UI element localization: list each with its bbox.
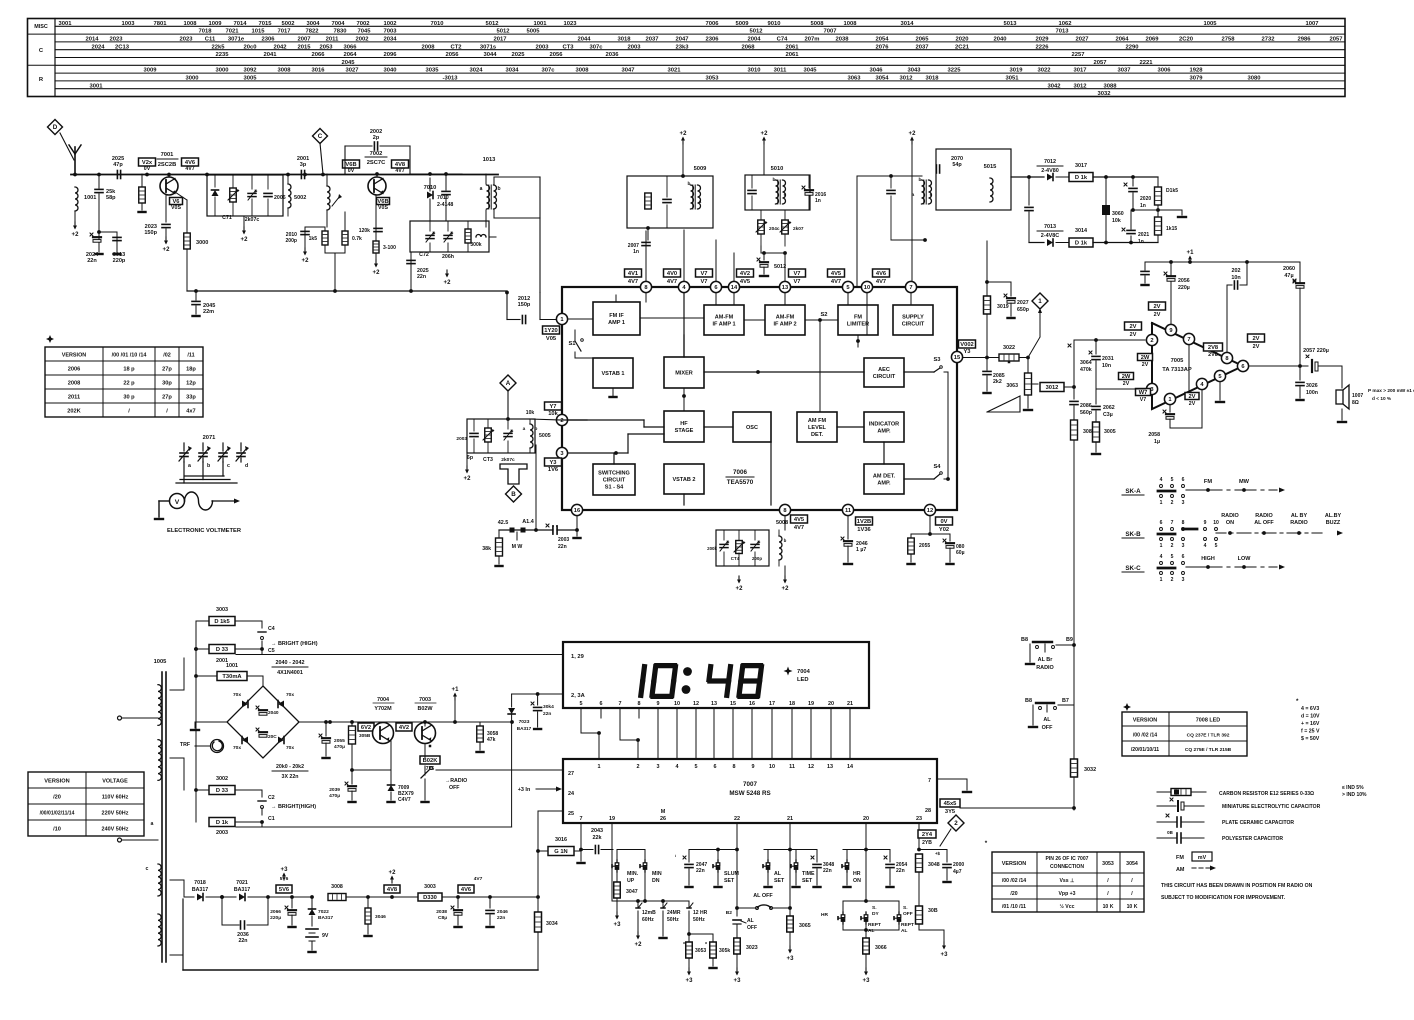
- svg-text:1001: 1001: [533, 21, 547, 27]
- svg-text:3034: 3034: [505, 68, 519, 74]
- svg-text:2-4V80: 2-4V80: [1041, 168, 1059, 174]
- svg-text:2008: 2008: [421, 44, 435, 50]
- svg-text:2003: 2003: [456, 436, 467, 442]
- svg-text:a: a: [912, 193, 915, 198]
- svg-text:45x5: 45x5: [944, 801, 958, 807]
- svg-text:6V2: 6V2: [361, 725, 371, 731]
- svg-text:+ = 16V: + = 16V: [1301, 721, 1320, 727]
- svg-text:18p: 18p: [186, 367, 196, 373]
- svg-text:3023: 3023: [746, 945, 758, 951]
- svg-text:4: 4: [1160, 477, 1163, 483]
- svg-text:2065: 2065: [915, 37, 929, 43]
- svg-text:22n: 22n: [823, 868, 832, 874]
- svg-text:3011: 3011: [774, 68, 787, 74]
- svg-text:7013: 7013: [1044, 224, 1056, 230]
- svg-text:V7: V7: [700, 271, 707, 277]
- svg-text:5: 5: [579, 701, 582, 707]
- svg-text:1003: 1003: [121, 21, 135, 27]
- svg-text:5002: 5002: [281, 21, 295, 27]
- svg-text:POLYESTER CAPACITOR: POLYESTER CAPACITOR: [1222, 836, 1283, 842]
- svg-text:13: 13: [782, 285, 788, 291]
- svg-text:-3013: -3013: [443, 76, 459, 82]
- svg-text:AM DET.: AM DET.: [873, 474, 896, 480]
- svg-text:18: 18: [789, 701, 795, 707]
- svg-text:4x7: 4x7: [186, 409, 195, 415]
- svg-text:2023: 2023: [179, 37, 193, 43]
- svg-text:/20: /20: [1010, 891, 1017, 897]
- svg-text:8Ω: 8Ω: [1352, 400, 1359, 406]
- svg-text:2066: 2066: [270, 909, 281, 915]
- svg-text:3010: 3010: [747, 68, 761, 74]
- svg-text:7018: 7018: [198, 29, 212, 35]
- svg-text:3017: 3017: [1073, 68, 1086, 74]
- svg-text:AL BY: AL BY: [1291, 513, 1308, 519]
- svg-text:5: 5: [1215, 543, 1218, 549]
- svg-text:Y3: Y3: [549, 460, 556, 466]
- svg-text:60µ: 60µ: [956, 550, 965, 556]
- svg-text:+2: +2: [389, 870, 397, 876]
- svg-text:10: 10: [769, 764, 775, 770]
- svg-text:CQ 275E / TLR 215B: CQ 275E / TLR 215B: [1185, 747, 1232, 753]
- svg-text:305k: 305k: [719, 948, 730, 954]
- svg-text:7008 LED: 7008 LED: [1196, 718, 1221, 724]
- svg-text:3047: 3047: [621, 68, 634, 74]
- svg-text:CIRCUIT: CIRCUIT: [902, 322, 925, 328]
- svg-text:1n: 1n: [1138, 239, 1144, 245]
- svg-text:2025: 2025: [511, 52, 525, 58]
- svg-text:D1k5: D1k5: [1166, 188, 1178, 194]
- svg-text:3: 3: [656, 764, 659, 770]
- svg-text:2071: 2071: [203, 435, 217, 441]
- svg-text:9: 9: [751, 764, 754, 770]
- svg-text:22k5: 22k5: [211, 44, 225, 50]
- svg-text:70x: 70x: [233, 692, 241, 698]
- svg-text:206h: 206h: [442, 254, 454, 260]
- svg-text:ELECTRONIC VOLTMETER: ELECTRONIC VOLTMETER: [167, 528, 242, 534]
- svg-text:5012: 5012: [749, 29, 763, 35]
- svg-text:7045: 7045: [357, 29, 371, 35]
- svg-text:22n: 22n: [87, 258, 97, 264]
- svg-text:BA317: BA317: [318, 915, 333, 921]
- svg-text:4V2: 4V2: [740, 271, 750, 277]
- svg-text:d = 10V: d = 10V: [1301, 714, 1320, 720]
- svg-text:5009: 5009: [694, 166, 707, 172]
- svg-text:42.5: 42.5: [498, 520, 509, 526]
- svg-text:4V5: 4V5: [831, 271, 842, 277]
- svg-text:FM: FM: [854, 315, 862, 321]
- svg-text:30B: 30B: [928, 908, 938, 914]
- svg-text:2C21: 2C21: [955, 44, 970, 50]
- svg-text:2235: 2235: [215, 52, 229, 58]
- svg-text:2V: 2V: [1253, 344, 1260, 350]
- svg-text:3053: 3053: [695, 948, 706, 954]
- svg-text:2038: 2038: [436, 909, 447, 915]
- svg-text:AEC: AEC: [878, 367, 890, 373]
- svg-text:3043: 3043: [907, 68, 921, 74]
- svg-text:1: 1: [1160, 500, 1163, 506]
- svg-text:2221: 2221: [1139, 60, 1153, 66]
- svg-text:→ BRIGHT (HIGH): → BRIGHT (HIGH): [271, 641, 318, 647]
- svg-text:2: 2: [1171, 543, 1174, 549]
- svg-text:B7: B7: [1062, 698, 1069, 704]
- svg-text:OSC: OSC: [746, 425, 758, 431]
- svg-text:200k: 200k: [707, 546, 717, 551]
- svg-text:5009: 5009: [735, 21, 749, 27]
- svg-text:120k: 120k: [359, 228, 370, 234]
- svg-text:3009: 3009: [143, 68, 157, 74]
- svg-text:2057: 2057: [1093, 60, 1106, 66]
- svg-text:3017: 3017: [1075, 163, 1087, 169]
- svg-text:1007: 1007: [1305, 21, 1318, 27]
- svg-text:S1 - S4: S1 - S4: [605, 485, 624, 491]
- svg-text:9V: 9V: [322, 933, 329, 939]
- svg-text:AMP 1: AMP 1: [608, 320, 625, 326]
- svg-text:+2: +2: [761, 131, 769, 137]
- svg-text:47µ: 47µ: [1284, 273, 1293, 279]
- svg-text:470µ: 470µ: [329, 793, 340, 799]
- svg-text:2040 - 2042: 2040 - 2042: [275, 660, 304, 666]
- svg-text:2061: 2061: [785, 44, 799, 50]
- svg-text:B8: B8: [1025, 698, 1032, 704]
- svg-text:BA317: BA317: [517, 726, 532, 731]
- svg-text:½ Vcc: ½ Vcc: [1060, 903, 1075, 910]
- svg-text:2040: 2040: [993, 37, 1007, 43]
- svg-text:M W: M W: [512, 544, 523, 550]
- svg-text:+2: +2: [736, 586, 744, 592]
- svg-text:3012: 3012: [1046, 385, 1059, 391]
- svg-text:S.: S.: [872, 905, 877, 911]
- svg-text:+2: +2: [373, 270, 381, 276]
- svg-text:1k5: 1k5: [309, 236, 318, 242]
- svg-text:7830: 7830: [333, 29, 347, 35]
- svg-text:2062: 2062: [1103, 405, 1115, 411]
- svg-text:2V: 2V: [1129, 324, 1136, 330]
- svg-text:3066: 3066: [875, 945, 887, 951]
- svg-text:REPT: REPT: [868, 922, 881, 928]
- svg-text:AL: AL: [868, 928, 874, 934]
- svg-text:2V8: 2V8: [1208, 345, 1219, 351]
- svg-text:10: 10: [674, 701, 680, 707]
- svg-text:2V: 2V: [1153, 304, 1160, 310]
- svg-text:VSTAB 2: VSTAB 2: [672, 477, 695, 483]
- svg-text:3054: 3054: [1126, 861, 1138, 867]
- svg-text:2V8: 2V8: [1208, 352, 1218, 358]
- svg-text:AL OFF: AL OFF: [1254, 520, 1274, 526]
- svg-text:4V5: 4V5: [740, 279, 751, 285]
- svg-text:VERSION: VERSION: [62, 353, 87, 359]
- svg-text:19: 19: [609, 816, 615, 822]
- svg-text:MIN: MIN: [652, 871, 662, 877]
- svg-text:C71: C71: [222, 215, 232, 221]
- svg-text:c: c: [227, 463, 230, 469]
- svg-text:3063: 3063: [847, 76, 861, 82]
- svg-text:3040: 3040: [383, 68, 397, 74]
- svg-text:7007: 7007: [823, 29, 836, 35]
- svg-text:23: 23: [916, 816, 922, 822]
- svg-text:3008: 3008: [331, 884, 343, 890]
- svg-text:2021: 2021: [1138, 232, 1149, 238]
- svg-text:2066: 2066: [311, 52, 325, 58]
- svg-text:2017: 2017: [493, 37, 506, 43]
- svg-text:3079: 3079: [1189, 76, 1203, 82]
- svg-text:C4V7: C4V7: [398, 797, 411, 803]
- svg-text:CONNECTION: CONNECTION: [1050, 864, 1084, 870]
- svg-text:6: 6: [1182, 554, 1185, 560]
- svg-text:2k07: 2k07: [793, 226, 804, 232]
- svg-text:2034: 2034: [383, 37, 397, 43]
- svg-text:9: 9: [1204, 520, 1207, 526]
- svg-text:110V 60Hz: 110V 60Hz: [102, 795, 129, 801]
- svg-text:1 µ7: 1 µ7: [856, 547, 866, 553]
- svg-text:25: 25: [568, 811, 574, 817]
- svg-text:2057 220µ: 2057 220µ: [1303, 348, 1329, 354]
- svg-text:22n: 22n: [417, 274, 426, 280]
- svg-text:11: 11: [845, 508, 852, 514]
- svg-text:4V0: 4V0: [667, 271, 677, 277]
- svg-text:2041: 2041: [263, 52, 277, 58]
- svg-text:2046: 2046: [497, 909, 508, 915]
- svg-text:470k: 470k: [1080, 367, 1092, 373]
- svg-text:a: a: [699, 200, 702, 205]
- svg-text:2054: 2054: [875, 37, 889, 43]
- svg-text:V002: V002: [960, 342, 973, 348]
- svg-text:1008: 1008: [183, 21, 197, 27]
- svg-text:9: 9: [656, 701, 659, 707]
- svg-text:+1: +1: [1187, 250, 1195, 256]
- svg-text:22n: 22n: [497, 915, 505, 921]
- svg-text:2027: 2027: [1017, 300, 1029, 306]
- svg-text:2: 2: [1171, 577, 1174, 583]
- svg-text:2076: 2076: [875, 44, 889, 50]
- svg-text:9010: 9010: [767, 21, 781, 27]
- svg-text:10n: 10n: [1231, 275, 1240, 281]
- svg-text:+2: +2: [635, 942, 643, 948]
- svg-text:A: A: [506, 380, 511, 387]
- svg-text:3005: 3005: [1104, 429, 1116, 435]
- svg-text:17: 17: [769, 701, 775, 707]
- svg-text:2096: 2096: [383, 52, 397, 58]
- svg-text:AL: AL: [1043, 717, 1051, 723]
- svg-text:2053: 2053: [319, 44, 333, 50]
- svg-text:3003: 3003: [216, 607, 228, 613]
- svg-text:SET: SET: [774, 878, 785, 884]
- svg-text:20k0 - 20k2: 20k0 - 20k2: [276, 764, 304, 770]
- svg-text:6: 6: [1241, 364, 1244, 370]
- svg-text:5012: 5012: [485, 21, 499, 27]
- svg-text:5012: 5012: [496, 29, 510, 35]
- svg-text:Y3: Y3: [963, 349, 970, 355]
- svg-text:2023: 2023: [109, 37, 123, 43]
- svg-text:2226: 2226: [1035, 44, 1049, 50]
- svg-text:3054: 3054: [875, 76, 889, 82]
- svg-text:1009: 1009: [208, 21, 222, 27]
- svg-text:6: 6: [599, 701, 602, 707]
- svg-text:3022: 3022: [1003, 345, 1015, 351]
- svg-text:LOW: LOW: [1238, 556, 1252, 562]
- svg-text:b: b: [919, 177, 922, 183]
- svg-text:CT2: CT2: [450, 44, 462, 50]
- svg-text:2014: 2014: [85, 37, 99, 43]
- svg-text:3053: 3053: [1102, 861, 1114, 867]
- svg-text:18 p: 18 p: [123, 367, 135, 373]
- svg-text:7013: 7013: [1055, 29, 1069, 35]
- svg-text:305B: 305B: [359, 733, 371, 739]
- svg-text:1n: 1n: [1140, 203, 1146, 209]
- svg-text:MIN.: MIN.: [627, 871, 639, 877]
- svg-text:2: 2: [954, 820, 958, 827]
- svg-text:6: 6: [1182, 477, 1185, 483]
- svg-text:D 33: D 33: [216, 647, 228, 653]
- svg-text:V7: V7: [700, 279, 707, 285]
- svg-text:307c: 307c: [541, 68, 555, 74]
- svg-text:3063: 3063: [1006, 383, 1018, 389]
- svg-text:2257: 2257: [1071, 52, 1084, 58]
- svg-text:MISC: MISC: [34, 24, 48, 30]
- svg-text:SUBJECT TO MODIFICATION FOR: SUBJECT TO MODIFICATION FOR IMPROVEMENT.: [1161, 895, 1286, 901]
- svg-text:3003: 3003: [424, 884, 436, 890]
- svg-text:2007: 2007: [297, 37, 310, 43]
- svg-text:12: 12: [808, 764, 814, 770]
- svg-text:70x: 70x: [286, 745, 294, 751]
- svg-text:4V7: 4V7: [794, 525, 804, 531]
- svg-text:≤ IND 5%: ≤ IND 5%: [1342, 785, 1364, 791]
- svg-text:V7: V7: [793, 279, 800, 285]
- svg-text:3022: 3022: [1037, 68, 1051, 74]
- svg-text:REPT: REPT: [901, 922, 914, 928]
- svg-text:+3 In: +3 In: [518, 787, 531, 793]
- svg-text:S1: S1: [568, 341, 576, 347]
- svg-text:7002: 7002: [356, 21, 370, 27]
- svg-text:FM: FM: [1204, 479, 1212, 485]
- svg-text:3019: 3019: [1009, 68, 1023, 74]
- svg-text:3060: 3060: [1112, 211, 1124, 217]
- svg-text:2011: 2011: [326, 37, 339, 43]
- svg-text:16: 16: [749, 701, 755, 707]
- svg-text:BA317: BA317: [192, 887, 208, 893]
- svg-text:4X1N4001: 4X1N4001: [277, 670, 303, 676]
- svg-text:2057: 2057: [1329, 37, 1342, 43]
- svg-text:2W: 2W: [1122, 374, 1131, 380]
- svg-text:2C13: 2C13: [115, 44, 130, 50]
- svg-text:1001: 1001: [84, 195, 96, 201]
- svg-text:5002: 5002: [294, 195, 306, 201]
- svg-text:220µ: 220µ: [270, 915, 281, 921]
- svg-text:M: M: [661, 809, 666, 815]
- svg-text:2064: 2064: [1115, 37, 1129, 43]
- svg-text:26: 26: [660, 816, 666, 822]
- svg-text:5005: 5005: [539, 433, 551, 439]
- svg-text:2064: 2064: [343, 52, 357, 58]
- svg-text:2-4V8C: 2-4V8C: [1041, 233, 1060, 239]
- svg-text:3X 22n: 3X 22n: [282, 774, 299, 780]
- svg-text:2W: 2W: [1141, 355, 1150, 361]
- svg-text:2020: 2020: [1140, 196, 1151, 202]
- svg-text:7003: 7003: [383, 29, 397, 35]
- svg-text:10k: 10k: [548, 411, 558, 417]
- svg-text:VOLTAGE: VOLTAGE: [102, 779, 128, 785]
- svg-text:7004: 7004: [377, 697, 389, 703]
- svg-text:3047: 3047: [626, 889, 638, 895]
- svg-text:/20/01/10/11: /20/01/10/11: [1131, 747, 1159, 753]
- svg-text:b: b: [784, 538, 787, 543]
- svg-text:1013: 1013: [483, 157, 496, 163]
- svg-text:AL: AL: [774, 871, 782, 877]
- svg-text:4V5: 4V5: [794, 517, 805, 523]
- svg-text:2306: 2306: [705, 37, 719, 43]
- svg-text:MSW 5248 RS: MSW 5248 RS: [729, 790, 770, 797]
- svg-text:2V: 2V: [1252, 336, 1259, 342]
- svg-text:T30mA: T30mA: [222, 674, 241, 680]
- svg-text:+3: +3: [787, 956, 795, 962]
- svg-text:b: b: [207, 463, 210, 469]
- svg-text:2, 3A: 2, 3A: [571, 693, 585, 699]
- svg-text:2k07c: 2k07c: [245, 217, 260, 223]
- svg-text:SK-A: SK-A: [1125, 488, 1141, 495]
- svg-text:3004: 3004: [306, 21, 320, 27]
- svg-text:7: 7: [928, 778, 931, 784]
- svg-text:C4: C4: [268, 626, 275, 632]
- svg-text:1928: 1928: [1189, 68, 1203, 74]
- svg-text:3037: 3037: [1117, 68, 1130, 74]
- svg-text:2086: 2086: [1080, 403, 1092, 409]
- svg-text:AL Br: AL Br: [1038, 657, 1054, 663]
- svg-text:2020: 2020: [955, 37, 969, 43]
- svg-text:4V7: 4V7: [876, 279, 886, 285]
- svg-text:PIN 26 OF IC 7007: PIN 26 OF IC 7007: [1046, 856, 1089, 862]
- svg-text:/02: /02: [163, 353, 171, 359]
- svg-text:2011: 2011: [68, 395, 80, 401]
- svg-text:3225: 3225: [947, 68, 961, 74]
- svg-text:4V7: 4V7: [628, 279, 638, 285]
- svg-text:5: 5: [1171, 477, 1174, 483]
- svg-text:AM-FM: AM-FM: [715, 315, 734, 321]
- svg-text:C5: C5: [268, 648, 275, 654]
- svg-text:7021: 7021: [225, 29, 239, 35]
- svg-text:OFF: OFF: [449, 785, 460, 791]
- svg-text:3053: 3053: [705, 76, 719, 82]
- svg-text:P max > 200 mW ±1 dB: P max > 200 mW ±1 dB: [1368, 388, 1414, 394]
- svg-text:3: 3: [560, 451, 563, 457]
- svg-text:14: 14: [731, 285, 738, 291]
- svg-text:204c: 204c: [769, 226, 780, 232]
- svg-text:7022: 7022: [318, 909, 329, 915]
- svg-text:4: 4: [675, 764, 678, 770]
- svg-text:TEA5570: TEA5570: [727, 479, 754, 486]
- svg-text:CT3: CT3: [562, 44, 574, 50]
- svg-text:+2: +2: [163, 247, 171, 253]
- svg-text:2: 2: [1150, 338, 1153, 344]
- svg-text:27p: 27p: [162, 367, 172, 373]
- svg-text:2002: 2002: [355, 37, 369, 43]
- svg-text:58p: 58p: [106, 195, 116, 201]
- svg-text:+3: +3: [734, 978, 742, 984]
- svg-text:CQ 237E / TLR 392: CQ 237E / TLR 392: [1187, 733, 1230, 739]
- svg-text:0V: 0V: [348, 168, 355, 174]
- svg-text:2068: 2068: [741, 44, 755, 50]
- svg-text:1V2B: 1V2B: [857, 519, 871, 525]
- svg-text:2060: 2060: [1283, 266, 1295, 272]
- svg-text:+$: +$: [935, 851, 941, 856]
- svg-text:+2: +2: [302, 258, 310, 264]
- svg-text:2SC7C: 2SC7C: [367, 160, 386, 166]
- svg-text:1: 1: [1160, 543, 1163, 549]
- svg-text:10k: 10k: [1112, 218, 1121, 224]
- svg-text:3046: 3046: [375, 914, 386, 920]
- svg-text:Y7: Y7: [549, 404, 556, 410]
- svg-text:S4: S4: [933, 464, 941, 470]
- svg-text:2-4148: 2-4148: [437, 202, 453, 208]
- svg-text:2043: 2043: [591, 828, 603, 834]
